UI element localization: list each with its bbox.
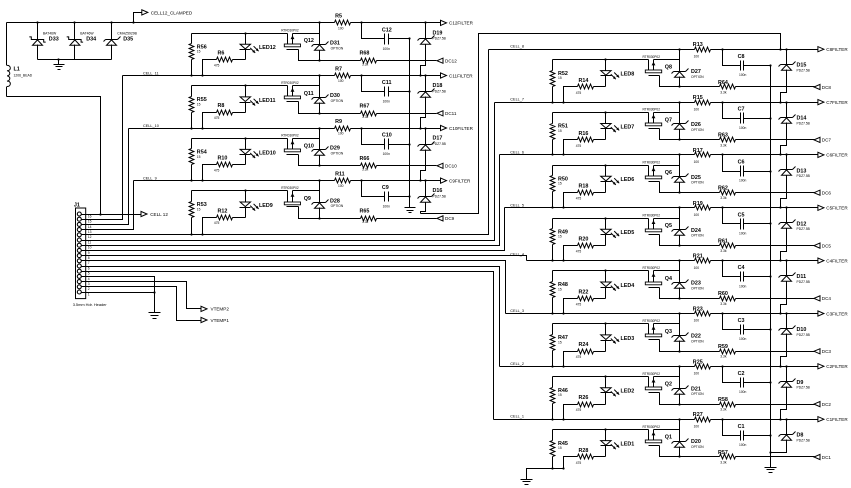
wire J1 pin13 to CELL_9 bbox=[86, 181, 134, 230]
node CELL_9 label bbox=[143, 177, 157, 181]
node DC6 bbox=[814, 190, 831, 195]
svg-text:100n: 100n bbox=[739, 443, 747, 447]
svg-text:100: 100 bbox=[338, 79, 344, 83]
svg-text:R28: R28 bbox=[579, 448, 589, 454]
svg-text:3.3k: 3.3k bbox=[720, 302, 727, 306]
wire Q11 gate bbox=[299, 102, 321, 115]
wire CELL_4 internal rail bbox=[553, 269, 680, 271]
svg-text:D34: D34 bbox=[86, 36, 96, 42]
svg-text:C2: C2 bbox=[738, 371, 745, 377]
wire CELL_5 row bbox=[505, 206, 818, 208]
svg-text:15: 15 bbox=[558, 287, 562, 291]
svg-text:RTR030P02: RTR030P02 bbox=[643, 266, 661, 270]
svg-text:PDZ7.5B: PDZ7.5B bbox=[797, 69, 811, 73]
svg-text:R9: R9 bbox=[335, 119, 342, 125]
svg-text:Q4: Q4 bbox=[665, 276, 672, 282]
capacitor C10 bbox=[362, 129, 411, 157]
zener D16 bbox=[418, 181, 447, 214]
wire J1 pin5 to CELL_1 bbox=[86, 272, 494, 420]
svg-text:DC10: DC10 bbox=[445, 164, 457, 169]
svg-text:C4FILTER: C4FILTER bbox=[826, 258, 848, 263]
zener D9 bbox=[779, 367, 811, 421]
wire Q8 gate bbox=[660, 76, 681, 88]
wire CELL_6 internal rail bbox=[553, 164, 680, 166]
svg-text:100n: 100n bbox=[739, 284, 747, 288]
svg-text:R67: R67 bbox=[360, 103, 370, 109]
svg-text:RTR030P02: RTR030P02 bbox=[643, 425, 661, 429]
resistor R45 bbox=[550, 430, 568, 470]
transistor Q11 bbox=[281, 81, 313, 101]
svg-text:OPTION: OPTION bbox=[331, 99, 344, 103]
svg-text:475: 475 bbox=[214, 64, 220, 68]
node C8FILTER bbox=[818, 47, 848, 52]
resistor R63 bbox=[680, 133, 815, 148]
svg-text:OPTION: OPTION bbox=[691, 234, 704, 238]
svg-text:100n: 100n bbox=[383, 205, 391, 209]
svg-text:OPTION: OPTION bbox=[691, 128, 704, 132]
resistor R54 bbox=[189, 139, 207, 182]
svg-text:LED3: LED3 bbox=[621, 336, 635, 342]
svg-text:LED11: LED11 bbox=[259, 98, 275, 104]
svg-text:475: 475 bbox=[576, 91, 582, 95]
resistor R65 bbox=[320, 208, 437, 224]
svg-text:100: 100 bbox=[694, 266, 700, 270]
resistor R56 bbox=[189, 34, 207, 77]
svg-text:475: 475 bbox=[576, 302, 582, 306]
svg-text:3.3k: 3.3k bbox=[720, 460, 727, 464]
wire C12FILTER row bbox=[351, 21, 441, 23]
svg-text:DC4: DC4 bbox=[822, 296, 832, 301]
wire CELL_8 row bbox=[489, 48, 818, 50]
wire C10FILTER row bbox=[351, 127, 441, 129]
svg-text:C1FILTER: C1FILTER bbox=[826, 417, 848, 422]
resistor R24 bbox=[562, 342, 605, 367]
svg-text:15: 15 bbox=[197, 155, 201, 159]
zener D35 bbox=[104, 23, 138, 60]
svg-text:R21: R21 bbox=[693, 254, 703, 260]
resistor R52 bbox=[550, 60, 568, 104]
svg-text:R20: R20 bbox=[579, 237, 589, 243]
svg-text:DC2: DC2 bbox=[822, 402, 832, 407]
svg-text:BAT46W: BAT46W bbox=[80, 31, 94, 35]
svg-text:100: 100 bbox=[694, 319, 700, 323]
wire J1 pin2 to VTEMP1 bbox=[86, 287, 201, 321]
zener D25 (OPTION) bbox=[672, 155, 705, 193]
svg-text:2: 2 bbox=[88, 287, 90, 291]
node CELL_5 label bbox=[510, 203, 524, 207]
zener D19 bbox=[418, 23, 447, 77]
svg-text:3.3k: 3.3k bbox=[362, 168, 369, 172]
wire CELL_6 row bbox=[500, 153, 818, 155]
transistor Q10 bbox=[281, 134, 314, 155]
zener D12 bbox=[779, 208, 811, 262]
transistor Q8 bbox=[643, 55, 673, 76]
wire C9FILTER row bbox=[351, 179, 441, 181]
node DC9 bbox=[437, 216, 455, 221]
svg-text:R13: R13 bbox=[693, 42, 703, 48]
svg-text:475: 475 bbox=[576, 461, 582, 465]
svg-text:DC11: DC11 bbox=[445, 111, 457, 116]
LED LED8 bbox=[601, 60, 635, 87]
svg-text:PDZ7.5B: PDZ7.5B bbox=[433, 89, 447, 93]
svg-text:CELL_11: CELL_11 bbox=[143, 72, 159, 76]
svg-text:D19: D19 bbox=[433, 30, 443, 36]
resistor R27 bbox=[693, 412, 711, 428]
svg-text:OPTION: OPTION bbox=[331, 204, 344, 208]
svg-text:100: 100 bbox=[338, 131, 344, 135]
node C7FILTER bbox=[818, 100, 848, 105]
svg-text:R26: R26 bbox=[579, 395, 589, 401]
svg-text:C3: C3 bbox=[738, 318, 745, 324]
node DC5 bbox=[814, 243, 831, 248]
svg-text:Q3: Q3 bbox=[665, 329, 672, 335]
svg-text:RTR030P02: RTR030P02 bbox=[281, 134, 299, 138]
svg-text:CELL_6: CELL_6 bbox=[510, 150, 524, 154]
svg-text:R66: R66 bbox=[360, 156, 370, 162]
wire J1 pin11 to CELL_7 bbox=[86, 103, 495, 241]
svg-text:PDZ7.5B: PDZ7.5B bbox=[797, 439, 811, 443]
svg-text:PDZ7.5B: PDZ7.5B bbox=[797, 227, 811, 231]
LED LED4 bbox=[601, 271, 635, 299]
transistor Q2 bbox=[643, 372, 673, 393]
wire Q1 gate bbox=[660, 446, 681, 458]
svg-text:100n: 100n bbox=[383, 100, 391, 104]
zener D11 bbox=[779, 261, 811, 315]
node CELL_8 label bbox=[510, 45, 524, 49]
svg-text:Q5: Q5 bbox=[665, 223, 672, 229]
svg-text:100n: 100n bbox=[739, 126, 747, 130]
svg-text:C7FILTER: C7FILTER bbox=[826, 100, 848, 105]
zener D26 (OPTION) bbox=[672, 103, 705, 140]
capacitor C6 bbox=[723, 155, 772, 183]
wire CELL_11 internal rail bbox=[192, 84, 320, 86]
resistor R8 bbox=[201, 103, 245, 129]
resistor R46 bbox=[550, 377, 568, 421]
node CELL_3 label bbox=[510, 309, 524, 313]
svg-text:15: 15 bbox=[558, 446, 562, 450]
svg-text:100: 100 bbox=[694, 424, 700, 428]
node CELL_1 label bbox=[510, 415, 524, 419]
transistor Q1 bbox=[643, 425, 673, 446]
resistor R61 bbox=[680, 238, 815, 253]
svg-text:Q2: Q2 bbox=[665, 382, 672, 388]
wire C11FILTER row bbox=[351, 74, 441, 76]
wire Q2 gate bbox=[660, 393, 681, 406]
node CELL_7 label bbox=[510, 98, 524, 102]
svg-text:475: 475 bbox=[576, 197, 582, 201]
wire CELL_11 row bbox=[123, 75, 335, 77]
svg-text:15: 15 bbox=[558, 235, 562, 239]
capacitor C12 bbox=[362, 23, 411, 51]
svg-text:RTR030P02: RTR030P02 bbox=[643, 213, 661, 217]
LED LED9 bbox=[240, 191, 273, 218]
svg-text:Q7: Q7 bbox=[665, 117, 672, 123]
svg-text:DC12: DC12 bbox=[445, 59, 457, 64]
svg-text:DC9: DC9 bbox=[445, 216, 455, 221]
svg-text:RTR030P02: RTR030P02 bbox=[643, 161, 661, 165]
svg-text:PDZ7.5B: PDZ7.5B bbox=[433, 142, 447, 146]
svg-text:13: 13 bbox=[88, 230, 92, 234]
svg-text:3.3k: 3.3k bbox=[720, 90, 727, 94]
resistor R47 bbox=[550, 324, 568, 368]
resistor R66 bbox=[320, 156, 437, 172]
wire diode common rail bbox=[38, 58, 112, 60]
svg-text:DC5: DC5 bbox=[822, 243, 832, 248]
svg-text:3.3k: 3.3k bbox=[362, 115, 369, 119]
node DC3 bbox=[814, 349, 831, 354]
svg-text:100: 100 bbox=[694, 107, 700, 111]
svg-text:3.3k: 3.3k bbox=[362, 63, 369, 67]
svg-text:Q6: Q6 bbox=[665, 170, 672, 176]
capacitor C9 bbox=[362, 181, 411, 209]
svg-text:CMHZ5929B: CMHZ5929B bbox=[117, 31, 137, 35]
svg-text:15: 15 bbox=[88, 220, 92, 224]
node DC7 bbox=[814, 137, 831, 142]
svg-text:475: 475 bbox=[576, 408, 582, 412]
wire Q9 gate bbox=[299, 207, 321, 220]
svg-text:C5FILTER: C5FILTER bbox=[826, 206, 848, 211]
svg-text:R5: R5 bbox=[335, 14, 342, 20]
transistor Q6 bbox=[643, 161, 673, 182]
svg-text:C7: C7 bbox=[738, 107, 745, 113]
node DC8 bbox=[814, 84, 831, 89]
svg-text:Q1: Q1 bbox=[665, 435, 672, 441]
zener D14 bbox=[779, 103, 811, 156]
svg-text:R22: R22 bbox=[579, 289, 589, 295]
ground (cell1) bbox=[521, 480, 533, 485]
capacitor C7 bbox=[723, 103, 772, 130]
svg-text:DC1: DC1 bbox=[822, 455, 832, 460]
wire J1 pin8 to CELL_4 bbox=[86, 256, 527, 261]
wire CELL_2 row bbox=[500, 365, 818, 367]
resistor R67 bbox=[320, 103, 437, 119]
zener D31 (OPTION) bbox=[312, 21, 344, 60]
node C5FILTER bbox=[818, 205, 848, 210]
svg-text:CELL_3: CELL_3 bbox=[510, 309, 524, 313]
resistor R50 bbox=[550, 166, 568, 209]
transistor Q4 bbox=[643, 266, 673, 287]
svg-text:R10: R10 bbox=[218, 156, 228, 162]
diode D33 bbox=[29, 23, 58, 60]
node C12FILTER bbox=[441, 20, 474, 25]
svg-text:1206_BEAD: 1206_BEAD bbox=[14, 74, 33, 78]
svg-text:C8: C8 bbox=[738, 54, 745, 60]
svg-text:C11: C11 bbox=[382, 80, 392, 86]
transistor Q5 bbox=[643, 213, 673, 234]
wire CELL_7 row bbox=[495, 101, 818, 103]
wire block1 bottom rail bbox=[527, 469, 565, 480]
resistor R12 bbox=[201, 208, 245, 235]
svg-text:DC8: DC8 bbox=[822, 85, 832, 90]
svg-text:VTEMP2: VTEMP2 bbox=[211, 307, 230, 312]
svg-text:475: 475 bbox=[576, 144, 582, 148]
resistor R49 bbox=[550, 219, 568, 262]
svg-text:C11FILTER: C11FILTER bbox=[449, 73, 473, 78]
ground (left filter caps) bbox=[405, 39, 416, 213]
svg-text:R16: R16 bbox=[579, 131, 589, 137]
capacitor C3 bbox=[723, 314, 772, 342]
svg-text:100n: 100n bbox=[739, 337, 747, 341]
svg-text:VTEMP1: VTEMP1 bbox=[211, 318, 230, 323]
zener D8 bbox=[769, 420, 810, 454]
svg-text:Q9: Q9 bbox=[304, 196, 311, 202]
LED LED10 bbox=[240, 139, 276, 165]
node CELL_11 label bbox=[143, 72, 159, 76]
svg-text:3.3k: 3.3k bbox=[720, 143, 727, 147]
svg-text:100: 100 bbox=[338, 184, 344, 188]
svg-text:R25: R25 bbox=[693, 359, 703, 365]
LED LED7 bbox=[601, 113, 635, 140]
node VTEMP1 bbox=[201, 317, 229, 322]
wire Q12 gate bbox=[299, 50, 321, 62]
transistor Q3 bbox=[643, 319, 673, 339]
svg-text:OPTION: OPTION bbox=[691, 286, 704, 290]
svg-text:PDZ7.5B: PDZ7.5B bbox=[797, 333, 811, 337]
svg-text:CELL_7: CELL_7 bbox=[510, 98, 524, 102]
wire J1 pin3 to VTEMP2 bbox=[86, 282, 201, 309]
svg-text:15: 15 bbox=[558, 129, 562, 133]
wire CELL_1 internal rail bbox=[553, 428, 680, 430]
zener D15 bbox=[779, 50, 811, 104]
zener D18 bbox=[418, 76, 447, 130]
svg-text:7: 7 bbox=[88, 261, 90, 265]
svg-text:100: 100 bbox=[694, 213, 700, 217]
svg-text:LED12: LED12 bbox=[259, 45, 276, 51]
svg-text:Q11: Q11 bbox=[304, 91, 314, 97]
svg-text:C8FILTER: C8FILTER bbox=[826, 47, 848, 52]
svg-text:R17: R17 bbox=[693, 148, 703, 154]
zener D21 (OPTION) bbox=[672, 367, 705, 405]
svg-text:3.3k: 3.3k bbox=[720, 408, 727, 412]
svg-text:100: 100 bbox=[338, 26, 344, 30]
wire Q4 gate bbox=[660, 288, 681, 300]
svg-text:PDZ7.5B: PDZ7.5B bbox=[433, 37, 447, 41]
svg-text:OPTION: OPTION bbox=[691, 75, 704, 79]
svg-text:R15: R15 bbox=[693, 95, 703, 101]
wire CELL_5 internal rail bbox=[553, 217, 680, 219]
svg-text:Q12: Q12 bbox=[304, 38, 314, 44]
wire J1 pin9 to CELL_5 bbox=[86, 208, 505, 251]
svg-text:CELL_2: CELL_2 bbox=[510, 362, 524, 366]
capacitor C4 bbox=[723, 261, 772, 289]
svg-text:RTR030P02: RTR030P02 bbox=[281, 81, 299, 85]
svg-text:RTR030P02: RTR030P02 bbox=[281, 29, 299, 33]
resistor R5 bbox=[335, 14, 351, 31]
svg-text:LED10: LED10 bbox=[259, 150, 276, 156]
node DC4 bbox=[814, 296, 831, 301]
svg-text:R27: R27 bbox=[693, 412, 703, 418]
svg-text:12: 12 bbox=[88, 235, 92, 239]
resistor R68 bbox=[320, 51, 437, 67]
resistor R59 bbox=[680, 344, 815, 359]
svg-text:R23: R23 bbox=[693, 307, 703, 313]
wire Q7 gate bbox=[660, 129, 681, 141]
svg-text:LED6: LED6 bbox=[621, 177, 635, 183]
node C10FILTER bbox=[441, 125, 474, 130]
inductor L1 bbox=[7, 23, 33, 97]
LED LED3 bbox=[601, 324, 635, 352]
svg-text:OPTION: OPTION bbox=[691, 392, 704, 396]
wire CELL_10 internal rail bbox=[192, 137, 320, 139]
LED LED11 bbox=[240, 86, 276, 113]
svg-text:C3FILTER: C3FILTER bbox=[826, 311, 848, 316]
svg-text:10: 10 bbox=[88, 246, 92, 250]
wire Q6 gate bbox=[660, 182, 681, 194]
capacitor C8 bbox=[723, 50, 772, 77]
wire J1 pin1 bbox=[86, 291, 156, 293]
svg-text:15: 15 bbox=[558, 182, 562, 186]
svg-text:100: 100 bbox=[694, 372, 700, 376]
svg-text:3.3k: 3.3k bbox=[720, 355, 727, 359]
wire CELL_2 internal rail bbox=[553, 375, 680, 377]
zener D29 (OPTION) bbox=[312, 127, 344, 165]
transistor Q12 bbox=[281, 29, 314, 50]
svg-text:D16: D16 bbox=[433, 188, 443, 194]
svg-text:R11: R11 bbox=[335, 171, 345, 177]
svg-text:R24: R24 bbox=[579, 342, 589, 348]
svg-text:100: 100 bbox=[694, 160, 700, 164]
capacitor C1 bbox=[723, 420, 772, 447]
svg-text:R7: R7 bbox=[335, 66, 342, 72]
svg-text:R18: R18 bbox=[579, 184, 589, 190]
svg-text:Q10: Q10 bbox=[304, 143, 314, 149]
svg-text:15: 15 bbox=[558, 76, 562, 80]
svg-text:DC6: DC6 bbox=[822, 191, 832, 196]
node C4FILTER bbox=[818, 258, 848, 263]
svg-text:C2FILTER: C2FILTER bbox=[826, 364, 848, 369]
LED LED5 bbox=[601, 219, 635, 246]
resistor R48 bbox=[550, 271, 568, 315]
svg-text:100n: 100n bbox=[383, 152, 391, 156]
wire Q5 gate bbox=[660, 235, 681, 247]
node C9FILTER bbox=[441, 178, 472, 183]
capacitor C5 bbox=[723, 208, 772, 236]
resistor R60 bbox=[680, 291, 815, 306]
resistor R26 bbox=[562, 395, 605, 421]
connector J1 bbox=[73, 203, 108, 307]
svg-text:C5: C5 bbox=[738, 212, 745, 218]
svg-text:R12: R12 bbox=[218, 208, 228, 214]
svg-text:OPTION: OPTION bbox=[691, 339, 704, 343]
wire J1 pin12 CELL_8 bus bbox=[86, 50, 489, 235]
svg-text:LED8: LED8 bbox=[621, 72, 635, 78]
resistor R28 bbox=[562, 448, 605, 470]
svg-text:15: 15 bbox=[197, 207, 201, 211]
svg-text:D35: D35 bbox=[123, 36, 133, 42]
wire J1 pin4 to ground bbox=[86, 277, 155, 313]
wire Q3 gate bbox=[660, 340, 681, 353]
svg-text:R60: R60 bbox=[718, 291, 728, 297]
resistor R18 bbox=[562, 184, 605, 209]
wire J1 pin16 CELL 12 bbox=[86, 214, 141, 216]
svg-text:3.5mm Hdr. Header: 3.5mm Hdr. Header bbox=[73, 302, 108, 307]
zener D10 bbox=[779, 314, 811, 368]
resistor R7 bbox=[335, 66, 351, 83]
wire J1 pin7 to CELL_3 bbox=[86, 261, 506, 314]
resistor R62 bbox=[680, 186, 815, 201]
wire CELL_7 internal rail bbox=[553, 111, 680, 113]
svg-text:R8: R8 bbox=[218, 103, 225, 109]
svg-text:15: 15 bbox=[558, 393, 562, 397]
svg-text:BAT46W: BAT46W bbox=[43, 31, 57, 35]
node C6FILTER bbox=[818, 152, 848, 157]
svg-text:DC7: DC7 bbox=[822, 138, 832, 143]
wire CELL_10 row bbox=[129, 128, 335, 130]
svg-text:5: 5 bbox=[88, 272, 90, 276]
zener D20 (OPTION) bbox=[672, 420, 705, 457]
svg-text:C9FILTER: C9FILTER bbox=[449, 178, 471, 183]
svg-text:475: 475 bbox=[214, 169, 220, 173]
